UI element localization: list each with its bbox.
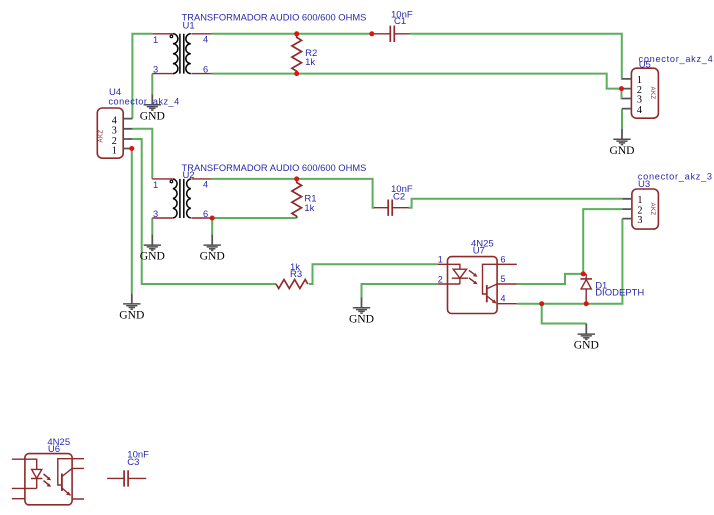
svg-text:6: 6 bbox=[501, 255, 506, 265]
svg-text:U2: U2 bbox=[183, 170, 195, 181]
svg-text:TRANSFORMADOR AUDIO 600/600 OH: TRANSFORMADOR AUDIO 600/600 OHMS bbox=[182, 13, 367, 23]
resistor R2 bbox=[292, 34, 302, 74]
resistor R1 bbox=[292, 179, 302, 218]
svg-text:GND: GND bbox=[140, 109, 165, 122]
svg-text:GND: GND bbox=[140, 250, 165, 263]
transformer U1 bbox=[152, 34, 211, 74]
svg-text:R3: R3 bbox=[290, 269, 302, 280]
wire C1 right to U5.1 bbox=[410, 34, 623, 79]
svg-text:C3: C3 bbox=[127, 457, 139, 468]
svg-text:1: 1 bbox=[153, 180, 158, 190]
svg-text:1: 1 bbox=[112, 145, 117, 156]
svg-text:U1: U1 bbox=[183, 21, 195, 32]
wire U5.4 to GND bbox=[621, 109, 623, 129]
optocoupler U7 bbox=[438, 257, 517, 314]
wire U1.3 to GND bbox=[151, 74, 153, 95]
svg-text:U5: U5 bbox=[639, 60, 651, 71]
svg-text:C2: C2 bbox=[393, 192, 405, 203]
wire R3 right to U7.1 bbox=[309, 264, 438, 284]
diode D1 bbox=[580, 274, 592, 304]
svg-text:4: 4 bbox=[203, 35, 208, 45]
svg-text:U3: U3 bbox=[638, 179, 650, 190]
svg-text:GND: GND bbox=[119, 309, 144, 322]
pin numbers U7 bbox=[438, 255, 506, 304]
ground symbol G5 (U7 pin2) bbox=[349, 297, 374, 325]
svg-text:conector_akz_4: conector_akz_4 bbox=[109, 96, 180, 106]
svg-text:4: 4 bbox=[501, 293, 506, 303]
svg-text:2: 2 bbox=[438, 274, 443, 284]
svg-text:1: 1 bbox=[438, 255, 443, 265]
wire U2.3 to GND bbox=[151, 218, 153, 235]
svg-text:C1: C1 bbox=[394, 16, 406, 27]
wire U7.5 to D1 top bbox=[517, 274, 586, 284]
svg-text:GND: GND bbox=[349, 312, 374, 325]
svg-text:5: 5 bbox=[501, 274, 506, 284]
svg-text:U7: U7 bbox=[473, 245, 485, 256]
ground symbol G3 (U2 pin3) bbox=[140, 235, 165, 263]
wire U4.3 to U2.1 bbox=[132, 129, 152, 179]
svg-text:U6: U6 bbox=[48, 444, 60, 455]
ground symbol G1 (U1 pin3) bbox=[140, 94, 165, 122]
connector U5 bbox=[622, 68, 658, 118]
wire C2 right to U3.1 bbox=[408, 199, 622, 208]
wire U5.2 to U5.3 bbox=[621, 89, 624, 99]
svg-text:AKZ: AKZ bbox=[98, 130, 104, 143]
svg-text:AKZ: AKZ bbox=[649, 203, 655, 216]
wire junction to GND mid bbox=[542, 304, 587, 324]
wire U4.1 to GND bbox=[131, 149, 133, 294]
resistor R3 bbox=[276, 280, 308, 289]
wire U4.2 to R3 left bbox=[132, 139, 276, 284]
capacitor C3 bbox=[107, 470, 146, 486]
ground symbol G4 (U2 pin6) bbox=[200, 235, 225, 263]
svg-text:1k: 1k bbox=[305, 57, 315, 68]
ground symbol G6 (mid) bbox=[574, 324, 599, 352]
connector U3 bbox=[622, 189, 658, 229]
svg-text:AKZ: AKZ bbox=[649, 87, 655, 100]
svg-text:6: 6 bbox=[203, 209, 208, 219]
wire U7.4 to D1 bottom to U3.3 bbox=[517, 219, 623, 304]
svg-text:3: 3 bbox=[153, 65, 158, 75]
svg-text:6: 6 bbox=[203, 65, 208, 75]
wire U2.6 to R1 bottom bbox=[212, 217, 297, 219]
svg-text:1: 1 bbox=[153, 35, 158, 45]
ground symbol G7 (U5 pin4) bbox=[609, 129, 634, 157]
wire U2.6 junction to GND bbox=[211, 218, 213, 235]
svg-text:GND: GND bbox=[574, 339, 599, 352]
svg-text:4: 4 bbox=[203, 180, 208, 190]
optocoupler U6 bbox=[12, 454, 84, 505]
svg-text:3: 3 bbox=[153, 209, 158, 219]
wire U1.4 to C1 left bbox=[212, 33, 372, 35]
pin numbers U2 bbox=[153, 180, 208, 220]
pin numbers U1 bbox=[153, 35, 208, 75]
svg-text:TRANSFORMADOR AUDIO 600/600 OH: TRANSFORMADOR AUDIO 600/600 OHMS bbox=[182, 163, 367, 173]
capacitor C2 bbox=[374, 200, 409, 216]
svg-text:1k: 1k bbox=[304, 203, 314, 214]
wire U7.2 to GND bbox=[362, 284, 438, 297]
svg-text:3: 3 bbox=[637, 215, 642, 226]
capacitor C1 bbox=[372, 26, 410, 42]
svg-text:GND: GND bbox=[200, 250, 225, 263]
ground symbol G2 (U4 pin1) bbox=[119, 293, 144, 321]
transformer U2 bbox=[152, 179, 211, 218]
svg-text:GND: GND bbox=[609, 144, 634, 157]
connector U4 bbox=[97, 108, 132, 158]
svg-text:DIODEPTH: DIODEPTH bbox=[595, 287, 644, 298]
wire U1.1 to U4.4 bbox=[132, 34, 152, 119]
wire U2.4 to C2 left bbox=[212, 179, 375, 208]
wire U1.6 to U5.2 bbox=[212, 74, 622, 89]
svg-text:4: 4 bbox=[637, 105, 642, 116]
wire U3.2 riser to D1 top bbox=[583, 209, 622, 274]
